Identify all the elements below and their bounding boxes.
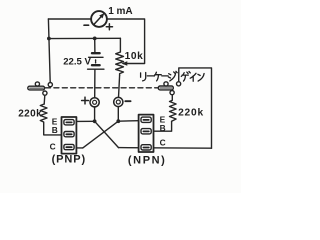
svg-text:10k: 10k bbox=[125, 51, 144, 62]
switch S1b (right slide switch) bbox=[158, 82, 180, 95]
svg-text:220k: 220k bbox=[178, 108, 204, 119]
transistor socket X2 (NPN) bbox=[139, 115, 154, 152]
wire: bottom rail to gain loop bbox=[119, 147, 212, 150]
node C junction dot (+ post) bbox=[93, 119, 97, 123]
wire: PNP E row to + post junction bbox=[77, 120, 95, 122]
resistor VR1 10k (pot) bbox=[116, 52, 124, 76]
svg-text:22.5 V: 22.5 V bbox=[63, 57, 91, 68]
wire: PNP C row short segment bbox=[77, 147, 83, 149]
wire: NPN B row right to 220k bbox=[154, 121, 172, 131]
svg-text:C: C bbox=[160, 137, 166, 147]
meter M1 1mA bbox=[84, 11, 113, 30]
wire: top rail right segment and right drop to pot wiper bbox=[108, 19, 145, 64]
transistor socket X1 (PNP) bbox=[62, 117, 77, 154]
wire: lead down to 10k bbox=[119, 38, 121, 52]
wire: diagonal PNP C to − junction bbox=[83, 121, 119, 148]
binding post − bbox=[114, 97, 131, 119]
wire: gain loop bbox=[179, 68, 212, 148]
wire: switch to left 220k bbox=[43, 95, 46, 104]
label リーケージ (katakana, hand drawn) bbox=[141, 71, 178, 81]
resistor R1 220k left bbox=[40, 104, 61, 135]
wire: diagonal + junction to bottom rail bbox=[95, 121, 119, 147]
switch S1a (left slide switch) bbox=[28, 82, 53, 95]
wire: 10k down to minus post bbox=[119, 76, 120, 98]
label ゲイン (katakana, hand drawn) bbox=[181, 72, 204, 82]
binding post + bbox=[82, 97, 100, 119]
battery B1 22.5V bbox=[88, 38, 104, 97]
node B junction dot battery top bbox=[93, 37, 97, 41]
node A junction dot at left vertical / inner rail bbox=[47, 37, 51, 41]
svg-text:220k: 220k bbox=[18, 109, 42, 120]
svg-text:B: B bbox=[52, 125, 58, 135]
pot wiper arrowhead bbox=[121, 61, 127, 65]
svg-text:C: C bbox=[50, 142, 56, 152]
wire: top-left vertical (meter branch down to leakage/gain switch) bbox=[48, 19, 50, 82]
wire: top rail left segment to meter bbox=[48, 18, 90, 20]
wire: − post junction to NPN E row bbox=[118, 120, 138, 123]
wire: inner rail y=38.5 bbox=[49, 37, 121, 39]
mechanical link dashed line bbox=[46, 87, 159, 89]
resistor R2 220k right bbox=[170, 95, 177, 121]
svg-text:1 mA: 1 mA bbox=[108, 6, 132, 17]
svg-text:(NPN): (NPN) bbox=[128, 154, 167, 166]
svg-text:(PNP): (PNP) bbox=[52, 153, 86, 165]
node D junction dot (− post) bbox=[116, 119, 120, 123]
